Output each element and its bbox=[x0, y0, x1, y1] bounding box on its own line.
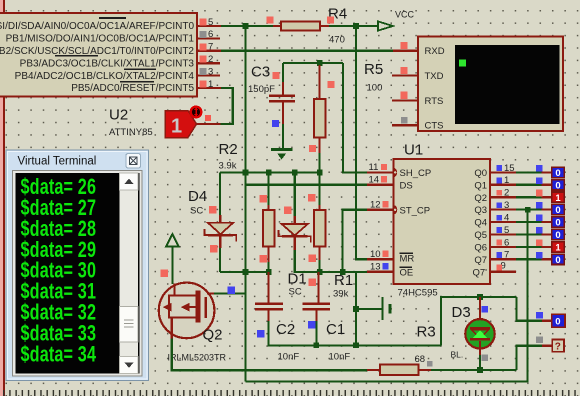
svg-text:Q7: Q7 bbox=[474, 255, 487, 266]
Virtual Terminal title bbox=[18, 156, 97, 168]
svg-text:CTS: CTS bbox=[425, 121, 444, 132]
Q6 pin state square bbox=[496, 240, 502, 246]
logic state box Q1 value 0 bbox=[552, 180, 565, 192]
VT1 TXD state square bbox=[400, 67, 407, 74]
resistor R5 vertical bbox=[314, 65, 326, 153]
svg-text:4: 4 bbox=[504, 213, 509, 224]
svg-text:R5: R5 bbox=[364, 61, 383, 78]
wire bus3a bbox=[220, 271, 271, 273]
wire bus4 riser to D3 top bbox=[441, 297, 517, 345]
U2 pin 5 stub bbox=[197, 25, 222, 27]
R1 bottom state square bbox=[308, 255, 316, 263]
U2 overline OC1A row1 bbox=[99, 17, 126, 19]
Q7 probe state square bbox=[536, 252, 543, 259]
svg-text:6: 6 bbox=[208, 29, 213, 40]
U1 pin 14 number bbox=[369, 174, 380, 185]
wire x245 down to Q2 gate and bottom bus bbox=[244, 185, 246, 382]
wire SH_CP riser x343 bbox=[343, 63, 367, 172]
VT1 black screen bbox=[455, 45, 560, 124]
U2 pin 1 state square bbox=[200, 81, 207, 88]
junction node D3 bottom bbox=[477, 367, 483, 373]
capacitor C2 lead from bus3a bbox=[268, 272, 270, 302]
D4 value label SC bbox=[190, 206, 203, 217]
U1 pin 15 number bbox=[504, 163, 515, 174]
Q4 probe state square bbox=[536, 215, 543, 222]
U1 pin 12 number bbox=[370, 199, 381, 210]
svg-text:39k: 39k bbox=[333, 289, 349, 300]
Q1 probe state square bbox=[536, 177, 543, 184]
svg-text:11: 11 bbox=[369, 162, 379, 173]
D3 reference label bbox=[452, 304, 471, 321]
R2 bottom state square bbox=[259, 255, 267, 263]
resistor R4 bbox=[273, 22, 329, 31]
Q3 pin state square bbox=[496, 202, 502, 208]
terminal scrollbar up button bbox=[120, 173, 139, 190]
svg-text:1: 1 bbox=[555, 243, 561, 254]
C3 reference label bbox=[251, 64, 270, 81]
svg-text:PB0/MOSI/DI/SDA/AIN0/OC0A/OC1A: PB0/MOSI/DI/SDA/AIN0/OC0A/OC1A/AREF/PCIN… bbox=[0, 21, 194, 32]
U2 pin 5 number bbox=[208, 17, 213, 28]
svg-text:OE: OE bbox=[400, 267, 414, 278]
logic state box Q4 value 0 bbox=[552, 217, 565, 229]
R2 top state square bbox=[259, 195, 267, 203]
C2 value label 10nF bbox=[278, 352, 300, 363]
C3 value label 150pF bbox=[248, 84, 275, 95]
wire D1 bottom corner to node bbox=[295, 250, 320, 272]
C1 reference label bbox=[326, 321, 345, 338]
U2 pin 1 stub bbox=[197, 87, 222, 89]
junction node bus1 x268 bbox=[266, 170, 272, 176]
junction node bus1 x295 bbox=[292, 170, 298, 176]
VT1 RXD stub bbox=[393, 50, 418, 52]
R4 right state square bbox=[327, 17, 334, 24]
wire D3 top to logic probe 0 bbox=[517, 297, 543, 321]
U2 pin 5 state square bbox=[200, 19, 207, 26]
junction node bus4 C1 bbox=[314, 343, 320, 349]
U2 pin label row PB3 bbox=[20, 58, 195, 69]
U1 Q0 label bbox=[474, 168, 487, 179]
capacitor C2 bbox=[255, 302, 283, 321]
D1 value label SC bbox=[289, 287, 302, 298]
svg-text:Q6: Q6 bbox=[474, 243, 487, 254]
svg-text:RTS: RTS bbox=[425, 96, 444, 107]
D4 bottom state square bbox=[210, 245, 218, 253]
VT1 cursor green square bbox=[459, 60, 466, 67]
svg-text:2: 2 bbox=[504, 188, 509, 199]
terminal text lines bbox=[21, 175, 97, 368]
svg-text:10nF: 10nF bbox=[278, 352, 300, 363]
Q0 probe state square bbox=[536, 165, 543, 172]
wire D3 bottom to question probe bbox=[517, 346, 543, 370]
svg-text:3.9k: 3.9k bbox=[219, 161, 237, 172]
wire D4 drop from bus1 bbox=[219, 173, 221, 216]
Virtual Terminal screen bezel bbox=[13, 171, 143, 377]
svg-text:0: 0 bbox=[555, 180, 560, 191]
svg-text:0: 0 bbox=[555, 230, 560, 241]
svg-text:C3: C3 bbox=[251, 64, 270, 81]
U2 pin 6 state square bbox=[200, 31, 207, 38]
D3 value label BL bbox=[451, 350, 464, 360]
wire C2 to bus4 bbox=[269, 321, 441, 345]
svg-text:13: 13 bbox=[370, 261, 381, 272]
wire pin5 to R4 bbox=[221, 25, 273, 27]
wire D1 drop from bus1 bbox=[294, 173, 296, 217]
wire C3 bus y63 bbox=[283, 62, 343, 64]
Q2 pin state square bbox=[496, 190, 502, 196]
U1 pin 15 Q0 stub bbox=[490, 171, 552, 173]
U2 pin label row PB4 bbox=[15, 71, 195, 82]
capacitor C1 bbox=[303, 302, 331, 321]
wire C3 to ground bbox=[282, 124, 284, 149]
U2 pin 6 number bbox=[208, 29, 213, 40]
capacitor C3 top lead bbox=[282, 82, 284, 95]
U1 pin 3 Q3 stub bbox=[490, 209, 552, 211]
VT1 RTS stub bbox=[392, 99, 418, 101]
U1 value label 74HC595 bbox=[398, 288, 438, 299]
wire bus1 bbox=[220, 171, 320, 173]
R3 reference label bbox=[417, 324, 436, 341]
svg-text:10nF: 10nF bbox=[329, 352, 351, 363]
R5 bottom state square bbox=[309, 145, 316, 152]
VT1 RXD state square bbox=[400, 42, 407, 49]
svg-text:$data= 34: $data= 34 bbox=[21, 342, 97, 367]
svg-text:Q2: Q2 bbox=[474, 193, 487, 204]
U1 pin 7 number bbox=[504, 250, 509, 261]
U2 overline OC1B row4 bbox=[55, 55, 98, 57]
svg-text:U1: U1 bbox=[404, 142, 423, 159]
Q7' pin state square bbox=[496, 265, 502, 271]
VT1 CTS label bbox=[425, 121, 444, 132]
R4 reference label bbox=[328, 6, 347, 23]
C1 value label 10nF bbox=[329, 352, 351, 363]
IC U1 74HC595 body bbox=[394, 159, 491, 284]
D3 top state square bbox=[482, 306, 489, 313]
R2 reference label bbox=[219, 141, 238, 158]
Q6 probe state square bbox=[536, 239, 543, 246]
VT1 CTS stub bbox=[392, 124, 418, 126]
U1 pin 1 number bbox=[504, 175, 509, 186]
wire OE net down x356 bbox=[355, 272, 357, 345]
svg-text:Q7': Q7' bbox=[473, 267, 488, 278]
svg-text:RXD: RXD bbox=[425, 46, 445, 57]
U1 Q5 label bbox=[474, 230, 487, 241]
U2 pin 6 stub bbox=[197, 37, 220, 39]
svg-text:D3: D3 bbox=[452, 304, 471, 321]
U2 pin label row PB0 bbox=[0, 21, 194, 32]
U2 overline XTAL2 row5 bbox=[124, 68, 156, 70]
svg-text:TXD: TXD bbox=[425, 71, 444, 82]
Q2 probe state square bbox=[536, 190, 543, 197]
terminal scrollbar track bbox=[120, 173, 139, 374]
svg-text:BL.: BL. bbox=[451, 350, 464, 360]
U1 Q7' label bbox=[473, 267, 488, 278]
terminal scrollbar down button bbox=[120, 357, 139, 374]
U1 ST_CP label bbox=[400, 205, 431, 216]
svg-text:PB4/ADC2/OC1B/CLKO/XTAL2/PCINT: PB4/ADC2/OC1B/CLKO/XTAL2/PCINT4 bbox=[15, 71, 195, 82]
wire VCC rail x356 down to MR bbox=[356, 26, 367, 259]
U1 pin 11 SH_CP stub bbox=[367, 167, 397, 177]
wire flag tip red segment bbox=[197, 123, 221, 125]
U1 OE label with overline bbox=[400, 266, 414, 278]
wire Q3 net riser x527 bbox=[246, 210, 528, 382]
svg-text:5: 5 bbox=[504, 225, 509, 236]
svg-text:1: 1 bbox=[555, 193, 561, 204]
question probe red stub bbox=[542, 345, 552, 347]
U1 pin 6 number bbox=[504, 237, 509, 248]
U1 reference label bbox=[404, 142, 423, 159]
sheet border pink margin strip bbox=[0, 0, 3, 396]
question probe state square grey bbox=[536, 336, 543, 343]
svg-text:12: 12 bbox=[370, 199, 381, 210]
diode D1 bbox=[279, 216, 311, 250]
U2 pin 2 stub bbox=[197, 62, 220, 64]
U1 Q3 label bbox=[474, 205, 487, 216]
VT1 CTS state square grey bbox=[401, 117, 408, 124]
U1 Q4 label bbox=[474, 218, 487, 229]
svg-text:3: 3 bbox=[504, 200, 509, 211]
wire x245 vertical pin5 net down to bus1 bbox=[244, 26, 246, 173]
ground symbol bbox=[271, 148, 293, 160]
R5 top state square bbox=[328, 81, 335, 88]
svg-text:Q3: Q3 bbox=[474, 205, 487, 216]
wire R5 bottom to bus1 bbox=[319, 153, 321, 173]
U1 pin 7 Q7 stub bbox=[490, 258, 552, 260]
svg-text:14: 14 bbox=[369, 174, 380, 185]
C2 reference label bbox=[276, 321, 295, 338]
VT1 RTS label bbox=[425, 96, 444, 107]
svg-text:7: 7 bbox=[208, 42, 213, 53]
U2 overline RESET row6 bbox=[120, 81, 154, 83]
Virtual Terminal black screen bbox=[16, 173, 140, 374]
VCC text bbox=[395, 10, 415, 20]
logic state box Q7 value 0 bbox=[552, 254, 565, 266]
svg-text:15: 15 bbox=[504, 163, 515, 174]
Q2 reference label bbox=[203, 327, 223, 344]
wire C1 to bus4 bbox=[315, 321, 317, 345]
svg-text:D4: D4 bbox=[188, 188, 207, 205]
R1 value label 39k bbox=[333, 289, 349, 300]
svg-text:2: 2 bbox=[208, 54, 213, 65]
junction node x342 ST_CP bbox=[340, 269, 346, 275]
U1 pin 10 number bbox=[370, 249, 381, 260]
VCC power terminal arrow bbox=[378, 21, 393, 30]
D4 reference label bbox=[188, 188, 207, 205]
logic state box Q2 value 1 bbox=[552, 192, 565, 204]
resistor R1 vertical bbox=[314, 173, 326, 273]
wire bus2 DS line bbox=[246, 173, 367, 185]
Q1 pin state square bbox=[496, 178, 502, 184]
logic state box Q3 value 0 bbox=[552, 204, 565, 216]
resistor R3 bbox=[367, 364, 431, 375]
svg-text:470: 470 bbox=[329, 35, 345, 46]
R4 left state square bbox=[267, 17, 274, 24]
U1 Q2 label bbox=[474, 193, 487, 204]
svg-text:0: 0 bbox=[555, 205, 560, 216]
IC U2 ATTINY85 body bbox=[0, 13, 197, 97]
svg-text:R2: R2 bbox=[219, 141, 238, 158]
svg-text:C2: C2 bbox=[276, 321, 295, 338]
LED D3 top lead bbox=[479, 297, 481, 320]
C1 bottom state square bbox=[308, 321, 316, 329]
svg-text:0: 0 bbox=[555, 168, 560, 179]
svg-text:Q5: Q5 bbox=[474, 230, 487, 241]
wire R3 to D3 bottom node bbox=[431, 369, 517, 371]
svg-text:68: 68 bbox=[415, 354, 426, 365]
U2 pin 7 stub bbox=[197, 50, 222, 52]
U1 pin 11 state square bbox=[381, 164, 387, 170]
U2 pin 3 stub bbox=[197, 74, 220, 76]
R2 value label 3.9k bbox=[219, 161, 237, 172]
junction node Q3 tap bbox=[525, 207, 531, 213]
wire C3 bus left corner down bbox=[282, 63, 284, 82]
Q3 probe state square bbox=[536, 202, 543, 209]
U1 pin 4 Q4 stub bbox=[490, 221, 552, 223]
junction node R5 top on C3 bus bbox=[317, 60, 323, 66]
svg-text:C1: C1 bbox=[326, 321, 345, 338]
svg-text:7: 7 bbox=[504, 250, 509, 261]
U1 pin 12 state square bbox=[382, 201, 388, 207]
svg-text:Q4: Q4 bbox=[474, 218, 487, 229]
diode D4 bbox=[205, 215, 237, 248]
capacitor C1 lead from node bbox=[317, 272, 319, 302]
svg-text:SC: SC bbox=[190, 206, 203, 217]
svg-text:R3: R3 bbox=[417, 324, 436, 341]
unknown state box question mark bbox=[552, 340, 564, 353]
junction node ST_CP net x319 bbox=[317, 269, 323, 275]
U2 value label ATTINY85 bbox=[109, 127, 153, 138]
svg-text:Q0: Q0 bbox=[474, 168, 487, 179]
U1 pin 5 number bbox=[504, 225, 509, 236]
svg-text:SC: SC bbox=[289, 287, 302, 298]
junction node bus4 x356 bbox=[353, 343, 359, 349]
U1 pin 1 Q1 stub bbox=[490, 184, 552, 186]
svg-text:PB5/ADC0/RESET/PCINT5: PB5/ADC0/RESET/PCINT5 bbox=[71, 83, 194, 94]
VT1 TXD label bbox=[425, 71, 444, 82]
R3 state square grey bbox=[427, 361, 433, 367]
junction node R4/VCC rail bbox=[353, 23, 359, 29]
junction node battery tap bbox=[353, 306, 359, 312]
R1 top state square bbox=[308, 194, 316, 202]
U1 pin 11 number bbox=[369, 162, 379, 173]
svg-text:6: 6 bbox=[504, 237, 509, 248]
sheet border bottom tick marks bbox=[3, 390, 580, 396]
junction node bus3a x245 bbox=[243, 269, 249, 275]
junction node bus3a x268 C2 bbox=[266, 269, 272, 275]
svg-text:1: 1 bbox=[208, 79, 213, 90]
U1 Q6 label bbox=[474, 243, 487, 254]
U1 pin 5 Q5 stub bbox=[490, 233, 552, 235]
VCC power terminal up arrow at Q2 bbox=[166, 234, 178, 246]
svg-text:1: 1 bbox=[504, 175, 509, 186]
R3 value label 68 bbox=[415, 354, 426, 365]
Q2 source state square bbox=[161, 270, 169, 278]
svg-text:1: 1 bbox=[171, 116, 182, 138]
U1 Q1 label bbox=[474, 180, 487, 191]
logic state box Q6 value 1 bbox=[552, 242, 565, 254]
wire Q2 gate to x245 bbox=[214, 292, 246, 294]
LED D3 bottom lead bbox=[479, 341, 481, 355]
resistor R2 vertical bbox=[263, 173, 275, 273]
U1 pin 10 state square bbox=[382, 251, 388, 257]
logic state box 0 blue bbox=[552, 314, 565, 327]
svg-text:100: 100 bbox=[367, 83, 383, 94]
wire D3 bottom to node bbox=[479, 355, 481, 370]
Virtual Terminal close button bbox=[126, 154, 141, 169]
U2 pin 1 number bbox=[208, 79, 213, 90]
virtual terminal display VT1 body bbox=[418, 37, 563, 132]
Virtual Terminal popup window bbox=[6, 150, 149, 381]
svg-text:Q2: Q2 bbox=[203, 327, 223, 344]
VT1 RXD label bbox=[425, 46, 445, 57]
transistor Q2 IRLML5203TR mosfet bbox=[159, 283, 215, 339]
Q2 gate state square bbox=[227, 287, 235, 295]
U2 pin 3 number bbox=[208, 66, 213, 77]
Q5 probe state square bbox=[536, 227, 543, 234]
flag 1 marker bbox=[165, 111, 197, 138]
D3 bottom state square bbox=[482, 355, 489, 362]
svg-text:10: 10 bbox=[370, 249, 381, 260]
R4 value label 470 bbox=[329, 35, 345, 46]
U2 reference label bbox=[109, 107, 128, 124]
svg-text:MR: MR bbox=[400, 254, 415, 265]
junction node D3 top bbox=[477, 294, 483, 300]
R5 reference label bbox=[364, 61, 383, 78]
C3 bottom state square bbox=[272, 120, 279, 127]
U2 pin 3 state square bbox=[200, 68, 207, 75]
svg-text:0: 0 bbox=[555, 218, 560, 229]
Q5 pin state square bbox=[496, 227, 502, 233]
svg-text:5: 5 bbox=[208, 17, 213, 28]
U2 pin label row PB1 bbox=[6, 34, 195, 45]
U1 pin 4 number bbox=[504, 213, 509, 224]
wire D4 to bus3a bbox=[219, 248, 221, 272]
svg-text:ATTINY85: ATTINY85 bbox=[109, 127, 153, 138]
U1 pin 2 Q2 stub bbox=[490, 196, 552, 198]
VT1 RTS state square bbox=[400, 92, 407, 99]
U1 Q7 label bbox=[474, 255, 487, 266]
svg-text:Q1: Q1 bbox=[474, 180, 487, 191]
junction node bus1 x319 bbox=[317, 170, 323, 176]
logic state box Q5 value 0 bbox=[552, 229, 565, 241]
Q0 pin state square bbox=[496, 165, 502, 171]
flag origin target circle bbox=[191, 107, 202, 118]
terminal scrollbar thumb bbox=[120, 307, 139, 343]
svg-text:0: 0 bbox=[555, 255, 560, 266]
svg-text:?: ? bbox=[555, 342, 561, 353]
U2 pin 2 state square bbox=[200, 56, 207, 63]
svg-text:ST_CP: ST_CP bbox=[400, 205, 431, 216]
svg-text:SH_CP: SH_CP bbox=[400, 168, 432, 179]
U1 pin 13 number bbox=[370, 261, 381, 272]
U1 pin 9 Q7' stub bbox=[490, 271, 516, 273]
wire node to OE with ST_CP riser bbox=[320, 271, 367, 273]
U1 pin 14 DS stub bbox=[367, 184, 394, 186]
wire R4 to VCC bbox=[329, 25, 378, 27]
battery cell symbol bbox=[382, 297, 392, 320]
wire pin7 to RXD bbox=[221, 50, 393, 52]
R5 value label 100 bbox=[367, 83, 383, 94]
U2 pin label row PB2 bbox=[0, 46, 194, 57]
U1 pin 9 number bbox=[501, 261, 506, 272]
svg-text:PB3/ADC3/OC1B/CLKI/XTAL1/PCINT: PB3/ADC3/OC1B/CLKI/XTAL1/PCINT3 bbox=[20, 58, 195, 69]
D1 reference label bbox=[288, 271, 307, 288]
D4 top state square bbox=[209, 206, 217, 214]
U1 pin 14 state square bbox=[381, 176, 387, 182]
U1 pin 12 ST_CP stub bbox=[367, 205, 397, 215]
junction node pin5/x245 bbox=[243, 23, 249, 29]
LED D3 bbox=[465, 319, 494, 348]
U1 pin 10 MR stub bbox=[367, 258, 394, 260]
